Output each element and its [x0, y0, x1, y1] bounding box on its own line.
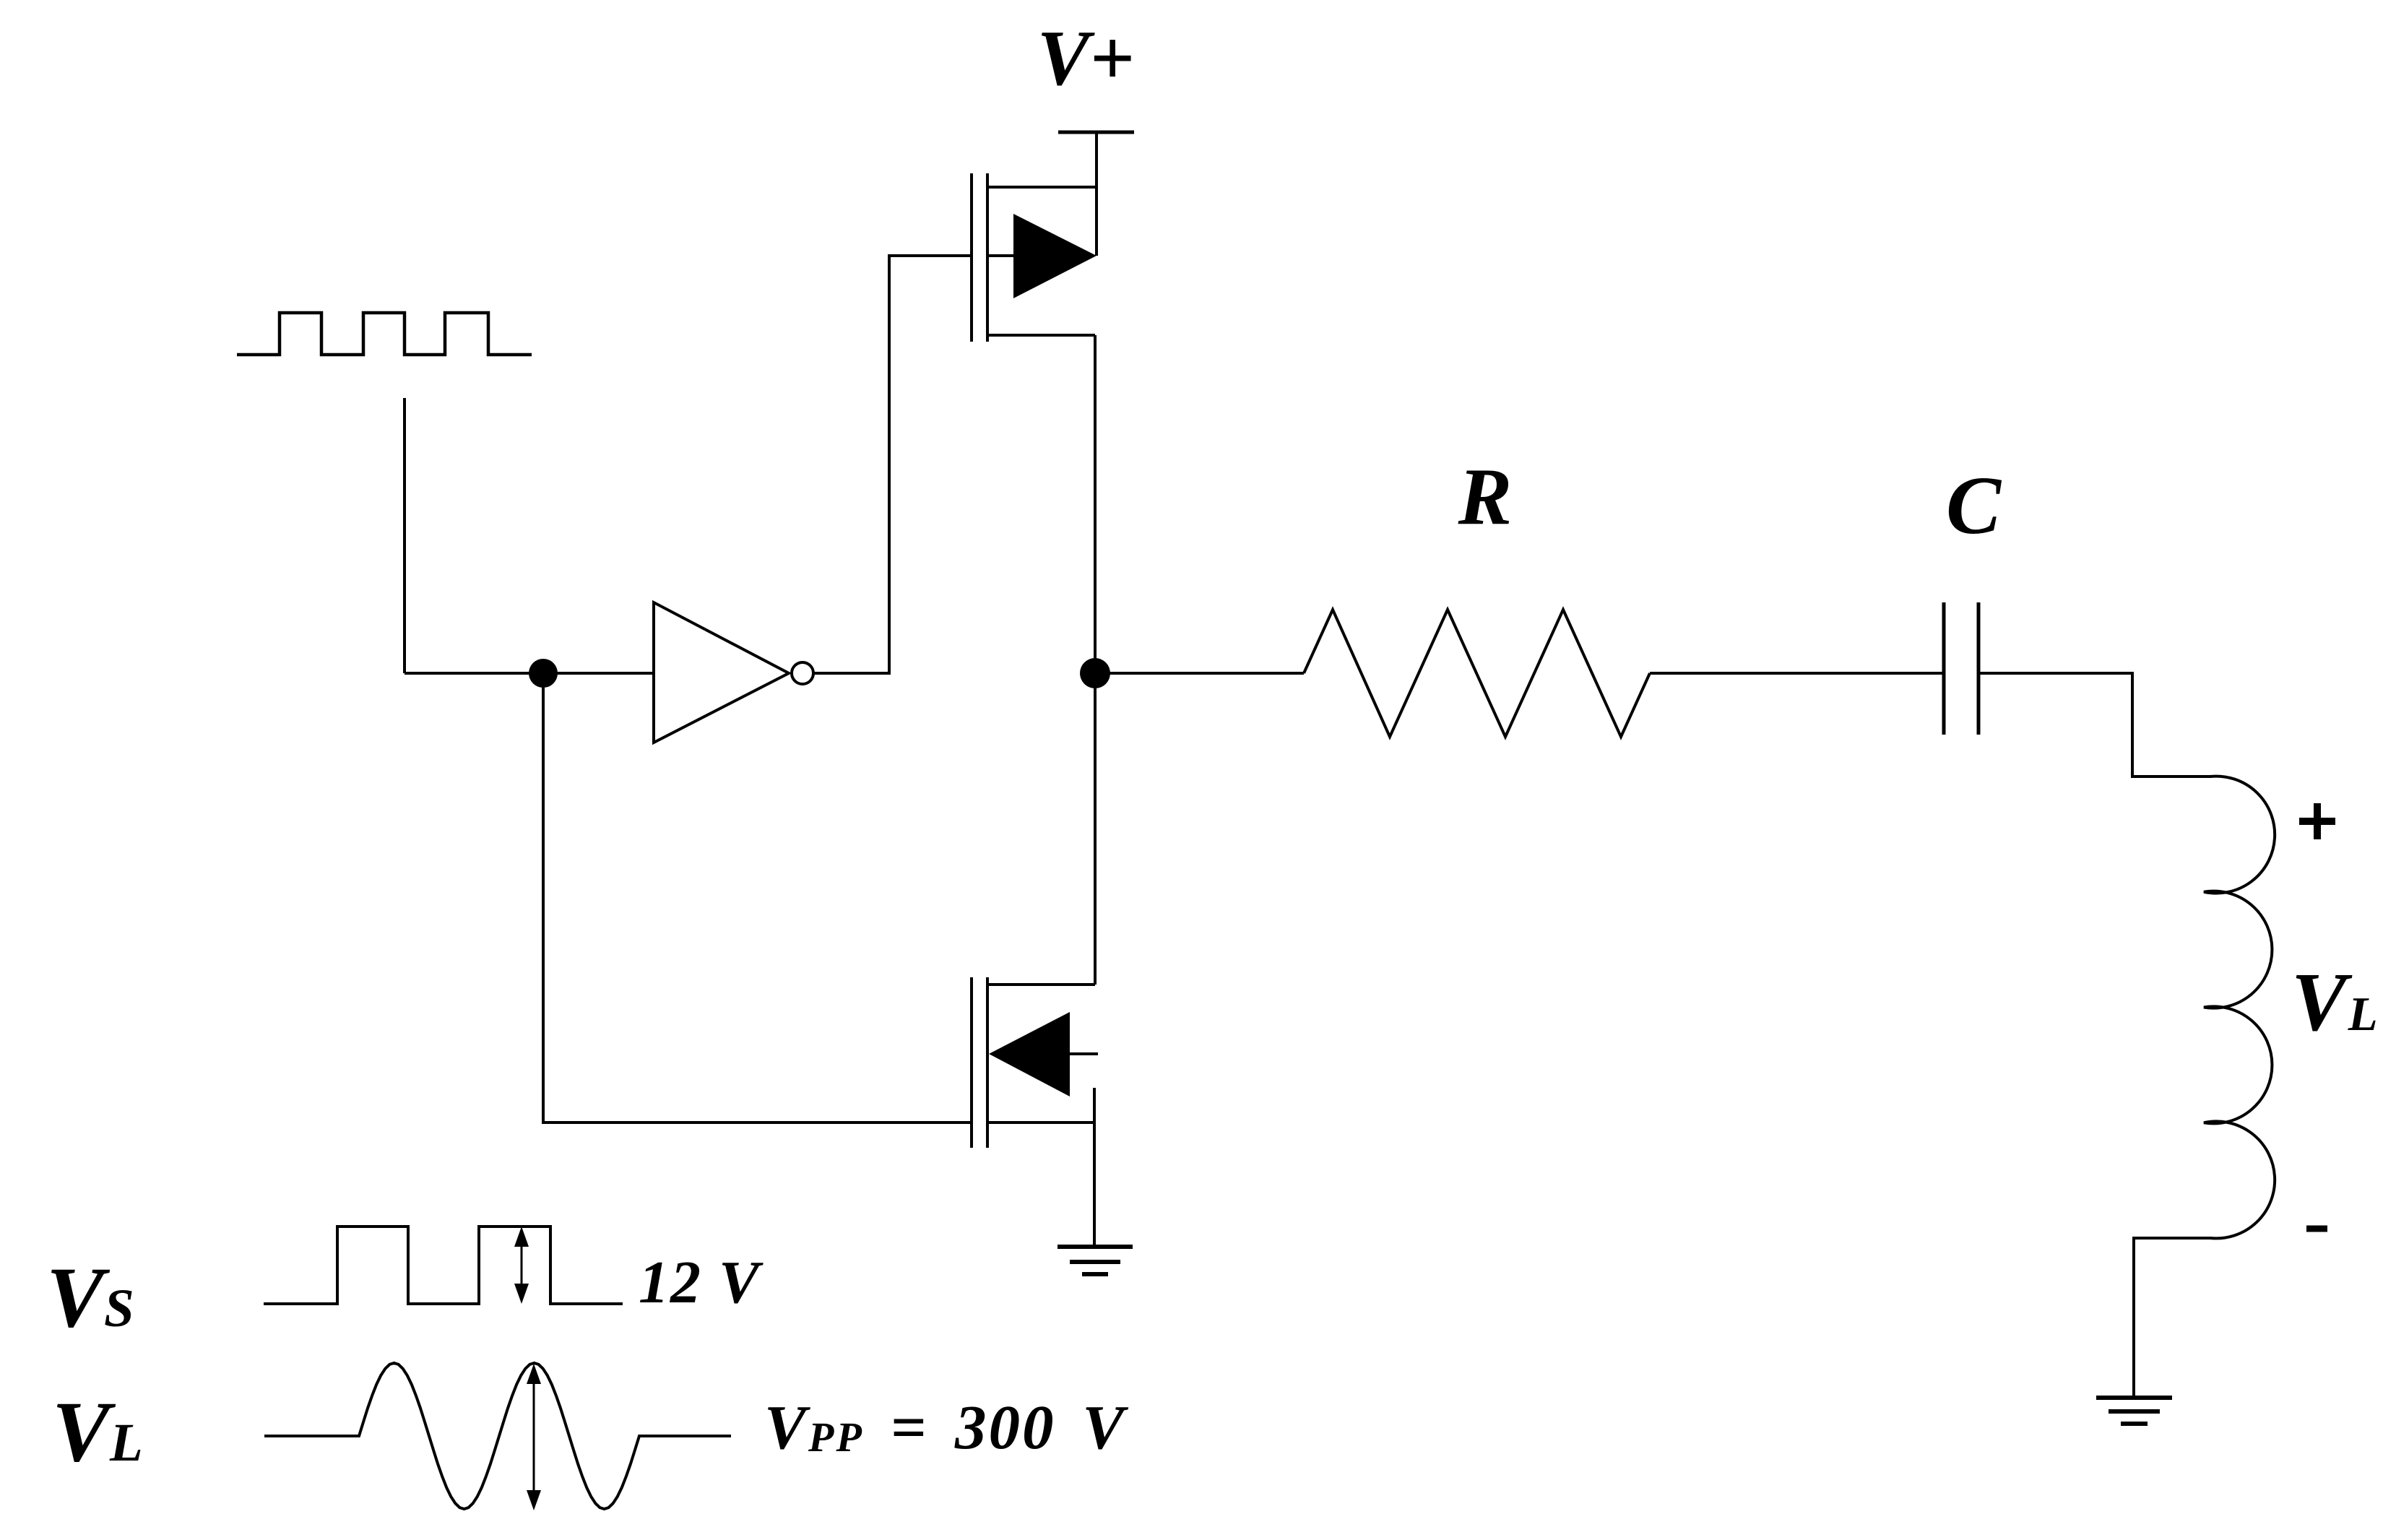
label - (inductor minus) [2306, 1226, 2327, 1232]
transistor Q2 NMOS gate plate [970, 977, 973, 1148]
node A (input junction) [529, 659, 558, 688]
ground (below NMOS) [1058, 1245, 1133, 1249]
svg-text:C: C [1946, 459, 2002, 551]
ground (right, below inductor) [2096, 1396, 2172, 1400]
VS waveform square wave [264, 1227, 623, 1304]
svg-text:VS: VS [46, 1249, 134, 1345]
inverter U1 [654, 602, 789, 743]
transistor Q2 NMOS drain tap [987, 983, 1095, 986]
transistor Q1 PMOS gate plate [970, 173, 973, 342]
transistor Q1 PMOS arrow [1013, 214, 1097, 298]
wire inverter output to PMOS gate [813, 256, 972, 673]
transistor Q1 PMOS source tap [987, 334, 1095, 337]
svg-text:VL: VL [2291, 956, 2378, 1048]
wire NMOS source to ground [1093, 1088, 1096, 1247]
VL waveform arrow Vpp [533, 1371, 535, 1503]
wire resistor to capacitor [1650, 672, 1944, 675]
transistor Q2 NMOS arrow [989, 1012, 1070, 1096]
wire PMOS source / NMOS drain vertical [1094, 335, 1097, 985]
label + (inductor plus) [2299, 818, 2335, 825]
VL waveform sine [264, 1363, 731, 1509]
svg-text:V+: V+ [1037, 14, 1135, 102]
transistor Q1 PMOS drain tap [987, 186, 1097, 189]
transistor Q1 PMOS channel [986, 173, 989, 342]
wire V+ to PMOS [1095, 132, 1098, 256]
capacitor C plates [1942, 602, 1946, 735]
transistor Q2 NMOS channel [986, 977, 989, 1148]
svg-text:VL: VL [52, 1383, 143, 1479]
node B (output junction) [1080, 658, 1110, 688]
wire inductor bottom to ground [2134, 1238, 2212, 1398]
svg-text:R: R [1458, 452, 1513, 542]
input square wave symbol [237, 313, 532, 355]
svg-text:12 V: 12 V [639, 1249, 764, 1316]
V+ supply bar [1058, 131, 1134, 134]
wire input horizontal to inverter [405, 672, 654, 675]
wire output node to resistor [1095, 672, 1304, 675]
wire gate of NMOS from node A [543, 673, 972, 1122]
wire capacitor to inductor [1978, 673, 2212, 777]
transistor Q2 NMOS source tap [987, 1121, 1094, 1124]
svg-text:VPP = 300 V: VPP = 300 V [764, 1392, 1128, 1462]
wire input vertical [403, 398, 406, 673]
resistor R [1304, 610, 1650, 737]
transistor Q1 PMOS bulk stub [987, 254, 1013, 257]
transistor Q2 NMOS bulk stub [1070, 1052, 1098, 1055]
VS waveform arrow 12V [521, 1234, 523, 1297]
inductor VL [2204, 777, 2275, 1239]
